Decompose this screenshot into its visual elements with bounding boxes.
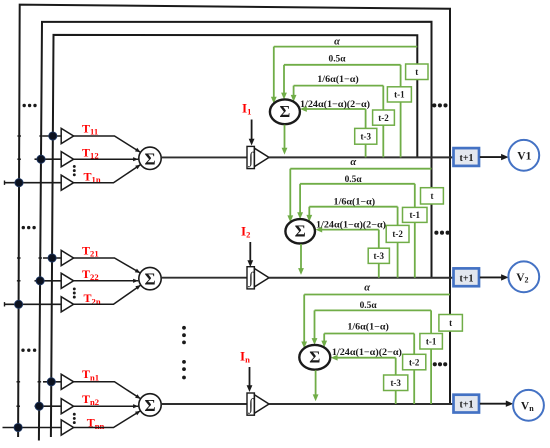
wire - summer to integrator row n (161, 403, 247, 405)
gain wire 1/6&#945;(1&#8722;&#945;) row 1 (291, 86, 384, 158)
wire - t+1 to output V2 (480, 274, 509, 280)
crossing tick on bus 1 at Tn2 line (16, 405, 20, 407)
svg-text:0.5α: 0.5α (360, 301, 378, 311)
svg-text:Σ: Σ (144, 396, 155, 415)
gain wire 0.5&#945; row 1 (281, 65, 401, 158)
svg-text:Σ: Σ (280, 102, 291, 121)
wire - Tn2 output to summer (74, 404, 139, 408)
wire - fractional summer output row 2 (298, 244, 304, 275)
svg-text:Σ: Σ (144, 149, 155, 168)
summer SUM2 (139, 267, 161, 289)
right ellipsis dots row 2 (434, 231, 449, 235)
delay box t row n (439, 315, 463, 332)
wire - T2n output to summer (74, 285, 141, 304)
svg-text:1/6α(1−α): 1/6α(1−α) (334, 197, 376, 208)
delay box t-1 row 2 (403, 207, 428, 222)
integrator row 2 (247, 267, 269, 289)
gain label row 1 (300, 99, 370, 110)
label T22 (82, 267, 99, 282)
left bus ellipsis dots (row2 level) (22, 226, 36, 229)
crossing tick on bus 2 at T11 line (39, 135, 43, 137)
svg-text:α: α (334, 36, 340, 47)
gain wire &#945; row n (301, 295, 450, 349)
fractional summer row n (299, 345, 330, 370)
wire - integrator output line row 2 (269, 277, 453, 279)
gain wire 1/6&#945;(1&#8722;&#945;) row 2 (306, 207, 397, 278)
wire - T1n output to summer (74, 165, 141, 183)
gain label row 2 (316, 220, 386, 231)
delay box t+1 row 2 (454, 268, 480, 286)
svg-text:t-2: t-2 (392, 229, 403, 239)
vertical ellipsis between amplifiers row n (73, 413, 76, 424)
fractional summer row 1 (270, 99, 300, 124)
junction dot on bus for Tn2 (35, 402, 43, 410)
right ellipsis dots row 1 (432, 103, 447, 107)
summer SUMn (139, 394, 161, 416)
vertical ellipsis between row 2 and row n (left) (182, 326, 186, 344)
gain wire 1/6&#945;(1&#8722;&#945;) row n (321, 334, 414, 405)
wire - input line to T1n from bus (5, 182, 62, 184)
junction dot on bus for T21 (48, 254, 56, 262)
junction dot on bus for Tn1 (47, 378, 55, 386)
gain label row n (364, 283, 370, 294)
vertical ellipsis between amplifiers row 1 (73, 165, 76, 176)
wire - summer to integrator row 2 (161, 277, 247, 279)
wire - T22 output to summer (74, 279, 139, 283)
gain label row 1 (329, 55, 347, 65)
input arrow I1 (249, 120, 255, 146)
label Tn1 (82, 367, 99, 382)
gain wire 1/24&#945;(1&#8722;&#945;)(2&#8722;&#945;) row n (331, 355, 396, 404)
crossing tick on bus 1 at T12 line (17, 158, 21, 160)
svg-text:Σ: Σ (295, 222, 306, 241)
junction dot on bus for T11 (49, 132, 57, 140)
junction dot on bus for T2n (15, 300, 23, 308)
label Tn2 (82, 392, 99, 407)
left bus ellipsis dots (row1 level) (23, 104, 37, 107)
wire - input line to T11 from bus (43, 135, 61, 137)
input label I1 (242, 100, 251, 116)
wire - inner feedback loop (V1 loop): left bus, top horizontal, right vertical (51, 35, 417, 437)
svg-text:1/24α(1−α)(2−α): 1/24α(1−α)(2−α) (300, 99, 370, 110)
integrator row n (247, 393, 269, 415)
wire - input line to Tnn from bus (3, 427, 62, 429)
input label I2 (241, 223, 250, 239)
delay box t row 1 (406, 64, 428, 80)
amplifier T11 (61, 128, 73, 143)
gain label row 2 (350, 157, 356, 168)
wire - fractional summer output row 1 (282, 125, 288, 155)
wire - middle feedback loop (V2 loop): left bus, top horizontal, right vertical (39, 22, 432, 441)
svg-text:t-3: t-3 (390, 378, 401, 388)
gain wire 0.5&#945; row n (312, 310, 432, 404)
svg-text:1/24α(1−α)(2−α): 1/24α(1−α)(2−α) (332, 347, 402, 358)
wire - input line to Tn2 from bus (35, 405, 62, 407)
crossing tick on bus 1 at T11 line (17, 135, 21, 137)
gain label row n (347, 321, 389, 332)
delay box t-2 row 1 (373, 110, 395, 125)
svg-text:t: t (430, 191, 433, 201)
output node V1 (508, 140, 539, 171)
gain label row n (332, 347, 402, 358)
wire - t+1 to output V1 (480, 154, 509, 160)
vertical ellipsis between amplifiers row 2 (73, 287, 76, 298)
crossing tick on bus 1 at T22 line (17, 280, 21, 282)
gain label row 1 (334, 36, 340, 47)
svg-text:t: t (449, 318, 452, 328)
wire - T11 output to summer (74, 136, 141, 152)
crossing tick on bus 1 at Tn1 line (17, 381, 21, 383)
svg-text:t-1: t-1 (426, 336, 437, 346)
delay box t-3 row n (384, 375, 408, 391)
input arrow In (247, 367, 253, 392)
svg-text:t-3: t-3 (361, 132, 372, 142)
gain wire 1/24&#945;(1&#8722;&#945;)(2&#8722;&#945;) row 2 (315, 227, 378, 278)
svg-text:Σ: Σ (309, 348, 320, 367)
wire - fractional summer output row n (313, 370, 319, 401)
junction dot on bus for T22 (36, 277, 44, 285)
wire - outer feedback loop top (Vn loop): left bus down, top horizontal, right vertical (18, 5, 450, 437)
gain wire &#945; row 2 (287, 169, 431, 223)
delay box t+1 row 1 (454, 148, 480, 166)
stub tick left end row 2 (4, 302, 6, 306)
crossing tick on bus 2 at T21 line (38, 257, 42, 259)
gain label row 2 (345, 175, 363, 185)
wire - summer to integrator row 1 (161, 156, 247, 158)
fractional summer row 2 (285, 219, 315, 243)
svg-text:0.5α: 0.5α (345, 175, 363, 185)
wire - T21 output to summer (74, 258, 141, 273)
junction dot on bus for T12 (37, 155, 45, 163)
right ellipsis dots row n (433, 362, 448, 366)
gain wire 0.5&#945; row 2 (297, 184, 415, 278)
gain label row 1 (317, 74, 359, 85)
delay box t-2 row n (403, 354, 426, 370)
output node Vn (513, 390, 544, 421)
label T1n (84, 169, 101, 184)
integrator row 1 (247, 146, 269, 168)
wire - t+1 to output Vn (480, 401, 514, 407)
amplifier T22 (61, 273, 73, 288)
summer SUM1 (139, 147, 161, 169)
wire - input line to T22 from bus (35, 280, 62, 282)
stub tick left end row 1 (4, 181, 6, 185)
amplifier T12 (61, 152, 73, 167)
amplifier T21 (61, 250, 73, 265)
vertical ellipsis between row 2 and row n (left, lower) (182, 360, 186, 379)
amplifier T1n (61, 175, 73, 190)
input label In (240, 348, 250, 364)
label Tnn (87, 416, 105, 431)
svg-text:1/6α(1−α): 1/6α(1−α) (347, 321, 389, 332)
delay box t-1 row 1 (387, 87, 411, 102)
wire - Tn1 output to summer (74, 382, 141, 399)
svg-text:t-1: t-1 (410, 210, 421, 220)
svg-text:t+1: t+1 (459, 400, 473, 411)
wire - T12 output to summer (74, 157, 139, 161)
wire - integrator output line row n (269, 403, 453, 405)
wire - input line to Tn1 from bus (43, 381, 61, 383)
svg-text:V1: V1 (517, 151, 531, 163)
label T2n (84, 291, 101, 306)
delay box t row 2 (421, 188, 444, 204)
junction dot on bus for T1n (15, 179, 23, 187)
svg-text:t-3: t-3 (374, 251, 385, 261)
wire - input line to T12 from bus (35, 158, 62, 160)
svg-text:α: α (364, 283, 370, 294)
svg-text:t-2: t-2 (409, 357, 420, 367)
delay box t-3 row 1 (355, 128, 377, 144)
gain label row n (360, 301, 378, 311)
label T21 (82, 243, 99, 258)
amplifier Tn1 (61, 374, 73, 389)
junction dot on bus for Tnn (14, 423, 22, 431)
gain label row 2 (334, 197, 376, 208)
delay box t-1 row n (420, 334, 443, 350)
output node V2 (508, 261, 539, 292)
svg-text:t-1: t-1 (394, 90, 405, 100)
gain wire 1/24&#945;(1&#8722;&#945;)(2&#8722;&#945;) row 1 (300, 106, 366, 157)
svg-text:t+1: t+1 (459, 153, 473, 164)
svg-text:Σ: Σ (144, 270, 155, 289)
delay box t+1 row n (454, 395, 480, 413)
wire - input line to T21 from bus (43, 257, 61, 259)
amplifier Tnn (61, 420, 73, 435)
left bus ellipsis dots (row n level) (21, 349, 36, 352)
svg-text:0.5α: 0.5α (329, 55, 347, 65)
amplifier T2n (61, 297, 73, 312)
svg-text:t: t (415, 67, 418, 77)
label T11 (82, 121, 98, 136)
input arrow I2 (247, 242, 253, 267)
crossing tick on bus 2 at Tn1 line (38, 381, 42, 383)
svg-text:1/24α(1−α)(2−α): 1/24α(1−α)(2−α) (316, 220, 386, 231)
label T12 (82, 145, 99, 160)
crossing tick on bus 1 at T21 line (17, 257, 21, 259)
svg-text:t-2: t-2 (378, 113, 389, 123)
svg-text:α: α (350, 157, 356, 168)
wire - input line to T2n from bus (5, 303, 62, 305)
wire - Tnn output to summer (74, 411, 141, 428)
wire - integrator output line row 1 (269, 156, 453, 158)
svg-text:t+1: t+1 (459, 273, 473, 284)
delay box t-2 row 2 (386, 225, 409, 242)
amplifier Tn2 (61, 399, 73, 414)
delay box t-3 row 2 (368, 248, 389, 263)
svg-text:1/6α(1−α): 1/6α(1−α) (317, 74, 359, 85)
gain wire &#945; row 1 (271, 47, 417, 104)
